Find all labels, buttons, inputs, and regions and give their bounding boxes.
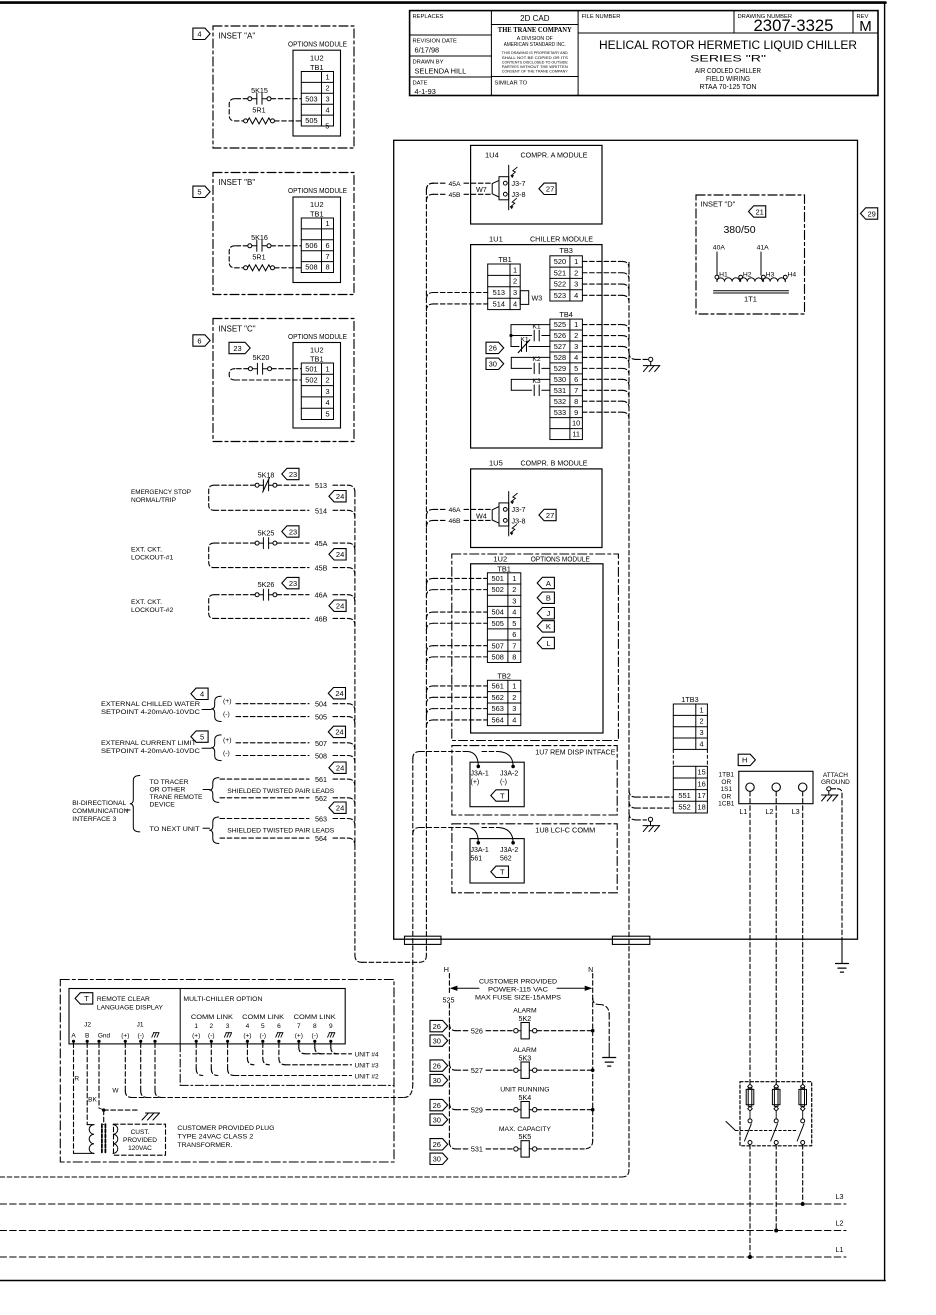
svg-text:1S1: 1S1 — [721, 786, 733, 793]
N supply line — [592, 974, 594, 1141]
field wire collector vertical — [354, 492, 356, 955]
wire 46A to W4 — [426, 509, 433, 516]
svg-text:30: 30 — [433, 1155, 441, 1164]
svg-text:1: 1 — [325, 364, 329, 373]
svg-text:EXT. CKT.: EXT. CKT. — [131, 599, 162, 606]
harness vertical inside panel — [425, 190, 427, 955]
page top border — [0, 1, 886, 4]
svg-text:5K20: 5K20 — [253, 353, 270, 362]
page right border — [884, 3, 886, 1281]
svg-text:7: 7 — [512, 641, 516, 650]
svg-text:5: 5 — [200, 732, 204, 741]
svg-text:COMM LINK: COMM LINK — [191, 1014, 234, 1021]
svg-text:23: 23 — [233, 344, 241, 353]
svg-text:4: 4 — [574, 291, 578, 300]
title block REV cell — [852, 11, 854, 33]
svg-text:CUST.: CUST. — [131, 1129, 150, 1136]
svg-text:SIMILAR TO: SIMILAR TO — [495, 81, 528, 87]
relay coil 5K5 (MAX. CAPACITY) — [449, 1142, 456, 1149]
svg-text:520: 520 — [554, 257, 566, 266]
svg-text:5: 5 — [512, 619, 516, 628]
svg-text:380/50: 380/50 — [723, 224, 755, 236]
svg-text:24: 24 — [336, 602, 344, 611]
svg-text:(-): (-) — [260, 1033, 267, 1040]
brace tracer pair — [203, 789, 210, 791]
connector W7 — [499, 177, 509, 200]
svg-text:PROVIDED: PROVIDED — [123, 1137, 157, 1144]
svg-text:5K26: 5K26 — [258, 580, 275, 589]
svg-text:4: 4 — [325, 105, 329, 114]
svg-text:563: 563 — [315, 815, 327, 824]
module 1U4 COMPR. A MODULE box — [471, 145, 602, 224]
svg-text:45A: 45A — [449, 181, 462, 188]
svg-text:TB1: TB1 — [310, 355, 324, 364]
svg-text:5: 5 — [325, 409, 329, 418]
svg-text:4: 4 — [197, 30, 201, 39]
module 1U7 REM DISP INTFACE dash-dot border — [452, 746, 617, 815]
flag 24 (46A/46B) — [329, 600, 346, 611]
wire loop left of 5K15/5R1 — [235, 98, 248, 100]
title block outer frame — [410, 11, 878, 96]
svg-text:6: 6 — [325, 241, 329, 250]
svg-text:OPTIONS MODULE: OPTIONS MODULE — [288, 42, 347, 49]
wire 46B (field) and loop — [214, 594, 255, 596]
svg-text:K3: K3 — [532, 378, 541, 385]
svg-text:M: M — [859, 18, 872, 35]
title block REPLACES cell — [410, 34, 492, 36]
connector W3 — [520, 291, 529, 305]
svg-text:1U2: 1U2 — [310, 200, 324, 209]
svg-text:R: R — [74, 1076, 79, 1083]
svg-text:529: 529 — [471, 1106, 483, 1115]
svg-text:506: 506 — [305, 241, 317, 250]
flag 30 (5K4) — [430, 1114, 448, 1125]
svg-text:BI-DIRECTIONAL: BI-DIRECTIONAL — [72, 800, 126, 807]
svg-text:18: 18 — [697, 803, 705, 812]
brace current limit setpoint — [202, 747, 211, 749]
svg-text:29: 29 — [868, 209, 876, 218]
svg-text:531: 531 — [471, 1145, 483, 1154]
svg-text:THE TRANE COMPANY: THE TRANE COMPANY — [498, 26, 573, 34]
svg-text:W7: W7 — [476, 185, 487, 194]
svg-text:45B: 45B — [315, 564, 328, 573]
contact K1 NO — [511, 324, 550, 326]
svg-text:6: 6 — [574, 375, 578, 384]
svg-text:5K25: 5K25 — [258, 528, 275, 537]
svg-text:505: 505 — [305, 116, 317, 125]
svg-text:4: 4 — [246, 1023, 250, 1030]
remote display box — [69, 989, 345, 1044]
line L2 — [0, 1230, 846, 1232]
wire 45A (field) — [277, 542, 309, 544]
wire 46B to W4 — [426, 520, 433, 527]
flag 23 (inset C) — [229, 342, 250, 353]
svg-text:RTAA 70-125 TON: RTAA 70-125 TON — [700, 82, 757, 91]
flag L — [537, 637, 554, 648]
svg-text:529: 529 — [554, 364, 566, 373]
wire A (R) to transformer — [73, 1043, 75, 1154]
field wiring run to remote (bottom) — [0, 1176, 622, 1178]
svg-text:DATE: DATE — [413, 81, 428, 87]
svg-text:2307-3325: 2307-3325 — [754, 16, 834, 35]
svg-text:TO NEXT UNIT: TO NEXT UNIT — [150, 826, 200, 833]
earth ground (N) — [603, 1057, 616, 1059]
svg-text:5K16: 5K16 — [251, 233, 268, 242]
svg-text:OR: OR — [721, 779, 731, 786]
svg-text:CUSTOMER PROVIDED: CUSTOMER PROVIDED — [479, 979, 557, 986]
flag H — [738, 754, 755, 765]
inset C options module 1U2 box — [293, 343, 341, 429]
svg-text:J3-7: J3-7 — [512, 505, 526, 514]
svg-text:3: 3 — [513, 288, 517, 297]
svg-text:Gnd: Gnd — [98, 1033, 111, 1040]
svg-text:8: 8 — [325, 263, 329, 272]
svg-text:1TB1: 1TB1 — [719, 772, 735, 779]
svg-text:5K4: 5K4 — [519, 1093, 532, 1102]
control panel enclosure box — [394, 140, 858, 939]
inset A dashed border — [213, 26, 354, 148]
svg-text:8: 8 — [313, 1023, 317, 1030]
svg-text:508: 508 — [305, 263, 317, 272]
flag 24 (45A/45B) — [329, 549, 346, 560]
wire 5K20 to TB1-1 — [272, 368, 302, 370]
svg-text:30: 30 — [433, 1076, 441, 1085]
module 1U1 CHILLER MODULE box — [471, 245, 602, 448]
flag J — [537, 608, 554, 619]
svg-text:(+): (+) — [223, 698, 232, 705]
flag A — [537, 577, 554, 588]
svg-text:30: 30 — [433, 1036, 441, 1045]
wire L2 pole to line L2 — [775, 1145, 777, 1231]
unit #3 comm link wires — [246, 1043, 248, 1058]
svg-text:W3: W3 — [532, 294, 543, 303]
svg-text:TO TRACER: TO TRACER — [150, 779, 189, 786]
svg-text:B: B — [85, 1033, 89, 1040]
wire attach ground to earth — [831, 788, 838, 790]
svg-text:2: 2 — [700, 717, 704, 726]
svg-text:W4: W4 — [476, 511, 487, 520]
svg-text:502: 502 — [491, 585, 503, 594]
svg-text:16: 16 — [697, 779, 705, 788]
wires options TB1 to harness — [426, 578, 433, 585]
svg-text:15: 15 — [697, 768, 705, 777]
1U7 inner box — [470, 762, 524, 807]
customer power annotation with arrows — [455, 987, 479, 989]
svg-text:513: 513 — [493, 288, 505, 297]
wire N to earth ground — [593, 998, 599, 1004]
svg-text:527: 527 — [554, 342, 566, 351]
svg-text:531: 531 — [554, 386, 566, 395]
svg-text:2: 2 — [512, 693, 516, 702]
svg-text:5K15: 5K15 — [251, 86, 268, 95]
svg-text:526: 526 — [471, 1027, 483, 1036]
flag 27 (1U4) — [539, 183, 556, 194]
svg-text:505: 505 — [315, 713, 327, 722]
svg-text:L1: L1 — [836, 1245, 844, 1254]
wires TB3 rows to bundle — [582, 260, 622, 262]
svg-text:27: 27 — [546, 185, 554, 194]
flag B — [537, 592, 554, 603]
flag 30 (5K3) — [430, 1074, 448, 1085]
svg-text:6: 6 — [512, 630, 516, 639]
svg-text:J: J — [547, 609, 551, 618]
wire 513 — [277, 484, 309, 486]
svg-text:2: 2 — [325, 83, 329, 92]
svg-text:REMOTE CLEAR: REMOTE CLEAR — [97, 996, 150, 1003]
wire 551 to 1TB3-17 — [629, 790, 636, 797]
contact K2 — [511, 356, 550, 358]
svg-text:4: 4 — [700, 739, 704, 748]
svg-text:INSET "C": INSET "C" — [219, 325, 256, 334]
svg-text:4: 4 — [512, 608, 516, 617]
svg-text:UNIT #4: UNIT #4 — [355, 1052, 379, 1059]
flag 24 (561/562) — [329, 762, 346, 773]
ground (1TB3 area) — [629, 813, 636, 820]
flag T (remote display) — [75, 993, 93, 1004]
svg-text:L2: L2 — [836, 1218, 844, 1227]
svg-text:24: 24 — [336, 804, 344, 813]
svg-text:3: 3 — [512, 596, 516, 605]
wire loop left of 5K16/5R1 — [235, 245, 248, 247]
svg-text:5: 5 — [197, 188, 201, 197]
1U8 inner box — [470, 839, 524, 883]
J1 wires to remote display line — [124, 1043, 126, 1091]
disconnect linkage — [736, 1130, 798, 1132]
svg-text:21: 21 — [756, 207, 764, 216]
inset A terminal table TB1 — [301, 72, 333, 127]
svg-text:COMM LINK: COMM LINK — [242, 1014, 285, 1021]
brace chilled water setpoint — [202, 709, 211, 711]
svg-text:OR: OR — [721, 793, 731, 800]
svg-text:4-1-93: 4-1-93 — [415, 87, 436, 96]
remote display outer dash-dot border — [60, 980, 394, 1163]
svg-text:LOCKOUT-#1: LOCKOUT-#1 — [131, 555, 174, 562]
flag 5 (inset B reference) — [193, 186, 210, 197]
transformer 1T1 taps H1-H4 — [715, 275, 719, 279]
svg-text:5R1: 5R1 — [252, 105, 265, 114]
svg-text:1: 1 — [574, 257, 578, 266]
svg-text:INSET "A": INSET "A" — [219, 32, 256, 41]
svg-text:5K2: 5K2 — [519, 1014, 532, 1023]
svg-text:11: 11 — [572, 430, 580, 439]
svg-text:J2: J2 — [84, 1022, 91, 1029]
wire 562 — [220, 797, 309, 799]
svg-text:46B: 46B — [315, 614, 328, 623]
ground (chiller module wires) — [629, 353, 636, 360]
svg-text:TB1: TB1 — [310, 210, 324, 219]
svg-text:L3: L3 — [836, 1192, 844, 1201]
svg-text:J1: J1 — [137, 1022, 144, 1029]
svg-text:40A: 40A — [713, 245, 726, 252]
svg-text:7: 7 — [325, 252, 329, 261]
brace bi-directional group — [126, 809, 130, 811]
svg-text:INSET "D": INSET "D" — [701, 200, 736, 209]
svg-text:526: 526 — [554, 331, 566, 340]
svg-text:UNIT #2: UNIT #2 — [355, 1073, 379, 1080]
attach ground symbol — [827, 787, 831, 791]
wire L1 pole to line L1 — [749, 1145, 751, 1258]
svg-text:(-): (-) — [312, 1033, 319, 1040]
svg-text:1: 1 — [574, 320, 578, 329]
svg-text:1U4: 1U4 — [485, 150, 499, 159]
svg-text:J3-7: J3-7 — [512, 179, 526, 188]
transformer 1T1 core — [714, 290, 789, 292]
svg-text:7: 7 — [574, 386, 578, 395]
svg-text:(+): (+) — [223, 737, 232, 744]
svg-text:533: 533 — [554, 408, 566, 417]
svg-text:OPTIONS MODULE: OPTIONS MODULE — [531, 554, 590, 563]
svg-text:(+): (+) — [471, 779, 480, 786]
svg-text:561: 561 — [315, 775, 327, 784]
page bottom border — [0, 1280, 885, 1282]
svg-text:(-): (-) — [137, 1033, 144, 1040]
flag T (1U8) — [491, 866, 509, 877]
wire 561 — [220, 778, 309, 780]
svg-text:562: 562 — [315, 794, 327, 803]
svg-text:564: 564 — [491, 716, 503, 725]
svg-text:26: 26 — [433, 1061, 441, 1070]
disconnect blade L1 — [745, 1124, 752, 1141]
svg-text:504: 504 — [491, 608, 503, 617]
svg-text:1: 1 — [512, 574, 516, 583]
wire 563 — [220, 818, 309, 820]
svg-text:COMPR. B MODULE: COMPR. B MODULE — [521, 459, 588, 468]
svg-text:J3A-1: J3A-1 — [471, 847, 489, 854]
multi-chiller divider — [179, 989, 181, 1044]
svg-text:3: 3 — [512, 704, 516, 713]
svg-text:4: 4 — [325, 398, 329, 407]
svg-text:J3A-2: J3A-2 — [500, 770, 518, 777]
svg-text:563: 563 — [491, 704, 503, 713]
svg-text:5K3: 5K3 — [519, 1053, 532, 1062]
wire bundle vertical — [628, 262, 630, 1170]
wire 45B to W7 — [426, 194, 433, 201]
svg-text:L2: L2 — [766, 807, 774, 816]
1U8 connector pins J3A-1 / J3A-2 — [420, 827, 468, 829]
title block FILE NUMBER cell — [578, 32, 878, 34]
svg-text:24: 24 — [335, 728, 343, 737]
svg-text:3: 3 — [325, 387, 329, 396]
svg-text:4: 4 — [574, 353, 578, 362]
svg-text:L3: L3 — [792, 807, 800, 816]
inset A options module 1U2 box — [293, 50, 341, 136]
wire 46A (field) — [277, 594, 309, 596]
svg-text:L1: L1 — [739, 807, 747, 816]
flag 30 (chiller module) — [486, 358, 504, 369]
svg-text:HELICAL ROTOR HERMETIC LIQUID: HELICAL ROTOR HERMETIC LIQUID CHILLER — [599, 38, 857, 52]
svg-text:24: 24 — [336, 550, 344, 559]
svg-text:46A: 46A — [449, 507, 462, 514]
title block SIMILAR TO cell — [491, 76, 578, 78]
wire 5K16 to TB1-6 — [271, 245, 301, 247]
H supply line — [448, 974, 450, 994]
svg-text:6: 6 — [277, 1023, 281, 1030]
svg-text:1U1: 1U1 — [489, 234, 503, 243]
svg-text:LANGUAGE DISPLAY: LANGUAGE DISPLAY — [97, 1005, 163, 1012]
svg-text:1: 1 — [513, 265, 517, 274]
svg-text:24: 24 — [336, 492, 344, 501]
wire 45B (field) and loop — [214, 542, 255, 544]
svg-text:562: 562 — [500, 855, 512, 862]
inset C dashed border — [213, 319, 354, 442]
module 1U2 OPTIONS MODULE dash-dot border — [452, 554, 619, 741]
svg-text:COMM LINK: COMM LINK — [294, 1014, 337, 1021]
svg-text:504: 504 — [315, 700, 327, 709]
flag 4 (inset A reference) — [193, 28, 210, 39]
grommet terminal block right — [612, 936, 649, 944]
svg-text:561: 561 — [471, 855, 483, 862]
svg-text:503: 503 — [305, 94, 317, 103]
svg-text:23: 23 — [289, 579, 297, 588]
svg-text:5K18: 5K18 — [258, 471, 275, 480]
svg-text:(+): (+) — [243, 1033, 251, 1040]
flag 6 (inset C reference) — [193, 335, 210, 346]
terminal strip 1TB3 lower — [673, 766, 707, 813]
svg-text:(-): (-) — [223, 711, 230, 718]
svg-text:COMMUNICATION: COMMUNICATION — [72, 808, 128, 815]
svg-text:SERIES "R": SERIES "R" — [690, 54, 766, 64]
flag K — [537, 621, 554, 632]
svg-text:CUSTOMER PROVIDED PLUG: CUSTOMER PROVIDED PLUG — [177, 1125, 274, 1132]
svg-text:45A: 45A — [315, 539, 328, 548]
earth ground below panel — [836, 963, 849, 965]
title block column dividers — [490, 11, 492, 96]
svg-text:1: 1 — [325, 73, 329, 82]
svg-text:1TB3: 1TB3 — [681, 695, 698, 704]
flag 23 (5K18) — [282, 468, 299, 479]
svg-text:4: 4 — [512, 716, 516, 725]
svg-text:26: 26 — [433, 1140, 441, 1149]
svg-text:K1: K1 — [520, 337, 529, 344]
flag 24 (504/505) — [328, 688, 345, 699]
transformer secondary coil — [113, 1125, 118, 1154]
svg-text:527: 527 — [471, 1066, 483, 1075]
wire 45A to W7 — [426, 183, 433, 190]
module 1U8 LCI-C COMM dash-dot border — [452, 824, 617, 893]
svg-text:EMERGENCY STOP: EMERGENCY STOP — [131, 489, 191, 496]
wire 5R1 to TB1-8 — [275, 267, 302, 269]
svg-text:5: 5 — [574, 364, 578, 373]
svg-text:A: A — [546, 579, 551, 588]
svg-text:1U7 REM DISP INTFACE: 1U7 REM DISP INTFACE — [535, 747, 615, 756]
relay coil 5K4 (UNIT RUNNING) — [449, 1103, 456, 1110]
svg-text:26: 26 — [489, 344, 497, 353]
flag 21 — [749, 206, 766, 217]
title block 2D CAD cell — [491, 24, 578, 26]
wires TB4 rows to bundle — [582, 324, 622, 326]
svg-text:514: 514 — [315, 506, 327, 515]
contact K3 — [511, 378, 550, 380]
svg-text:530: 530 — [554, 375, 566, 384]
svg-text:3: 3 — [574, 280, 578, 289]
svg-text:532: 532 — [554, 397, 566, 406]
flag 24 (563/564) — [329, 802, 346, 813]
svg-text:561: 561 — [491, 682, 503, 691]
terminal dots — [72, 1040, 75, 1043]
svg-text:OR OTHER: OR OTHER — [150, 787, 186, 794]
svg-text:508: 508 — [315, 752, 327, 761]
svg-text:2: 2 — [325, 376, 329, 385]
svg-text:J3-8: J3-8 — [512, 190, 526, 199]
unit #2 comm link wires — [195, 1043, 197, 1069]
svg-text:5R1: 5R1 — [252, 252, 265, 261]
svg-text:508: 508 — [491, 652, 503, 661]
inset D dashed border — [696, 195, 805, 314]
svg-text:5: 5 — [325, 122, 329, 131]
svg-text:FILE NUMBER: FILE NUMBER — [582, 14, 621, 20]
disconnect blade L3 — [797, 1124, 804, 1141]
svg-text:SELENDA HILL: SELENDA HILL — [415, 67, 467, 76]
